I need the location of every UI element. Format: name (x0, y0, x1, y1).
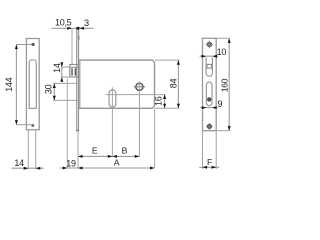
body right corner extension line (154, 108, 156, 168)
latch hatch bar 1 (71, 68, 73, 75)
dim 3 arrow right (80, 27, 85, 30)
dim 14 bottom arrow right (36, 167, 41, 170)
dim 19-A line (60, 167, 155, 169)
strike plate bottom screw hole (31, 124, 34, 127)
faceplate latch opening (upper slot) (206, 58, 212, 77)
faceplate back line (76, 30, 78, 131)
faceplate outline (203, 38, 217, 130)
dim 14 latch arrow down (60, 62, 63, 67)
dim 144 line (15, 45, 17, 125)
svg-text:160: 160 (220, 78, 230, 92)
dim 9 arrow left (202, 106, 207, 109)
dim 19 arrow left (63, 167, 68, 170)
dim 30 ext top (53, 82, 79, 84)
dim 144 arrow up (15, 45, 18, 50)
dim F arrow right (212, 166, 217, 169)
faceplate top screw hole (207, 42, 212, 47)
latch tip extension line (71, 28, 73, 64)
dim 84 ext top (155, 59, 179, 61)
dim F line (199, 166, 219, 168)
dim 84 ext bottom (155, 107, 179, 109)
dim 10 arrow right (212, 55, 217, 58)
dim 9 arrow right (212, 106, 217, 109)
dim B arrow left (112, 155, 117, 158)
svg-text:16: 16 (153, 96, 163, 106)
dim E arrow left (78, 155, 83, 158)
dim 16 ext top from follower (106, 94, 166, 96)
strike plate outline (26, 39, 39, 130)
dim E arrow right (108, 155, 113, 158)
svg-text:B: B (122, 146, 128, 156)
faceplate top edge extension (216, 37, 229, 39)
dim 84 arrow up (177, 60, 180, 65)
svg-text:14: 14 (52, 63, 62, 73)
faceplate ext line right below (215, 131, 217, 169)
svg-text:F: F (207, 157, 212, 167)
lock body left edge (79, 60, 81, 108)
cylinder hole cross vertical and B extension (138, 81, 140, 156)
svg-text:10,5: 10,5 (55, 17, 72, 27)
faceplate ext line left below (202, 131, 204, 169)
svg-text:84: 84 (168, 78, 178, 88)
dim F arrow left (203, 166, 208, 169)
dim 144 leader top (16, 44, 31, 46)
dim 19 arrow right / dim A arrow left (78, 167, 83, 170)
svg-text:E: E (92, 146, 98, 156)
svg-text:30: 30 (43, 84, 53, 94)
dim 14 latch line (61, 62, 63, 82)
dim 30 arrow down (53, 96, 56, 101)
dim 144 arrow down (15, 120, 18, 125)
dim 10,5 arrow left (67, 27, 72, 30)
ext line left slot right (35, 130, 37, 170)
dim 16 arrow down (163, 104, 166, 109)
cylinder screw hole circle (136, 83, 143, 90)
dim E-B line (78, 155, 139, 157)
dim 10 arrow left (202, 55, 207, 58)
dim 10 line (200, 55, 219, 57)
faceplate front extension below (77, 131, 79, 169)
faceplate top hole cross (206, 43, 214, 45)
strike plate slot (29, 60, 36, 109)
dim 30 line (53, 83, 55, 100)
dim 16 arrow up (163, 94, 166, 99)
svg-text:10: 10 (217, 47, 227, 57)
faceplate lower slot (206, 82, 212, 106)
dim 10,5-3 line (51, 27, 93, 29)
faceplate front line (78, 30, 80, 131)
faceplate bottom screw hole (207, 124, 211, 128)
ext line left slot left (27, 130, 29, 170)
dim 160 arrow up (228, 38, 231, 43)
follower hole stadium (109, 90, 116, 107)
latch bevel line (70, 66, 79, 68)
faceplate bottom hole cross (206, 125, 213, 127)
latch visible in opening (206, 63, 212, 65)
svg-text:3: 3 (84, 18, 89, 28)
latch hatch bar 2 (75, 68, 77, 75)
dim 14 bottom line (12, 167, 44, 169)
dim 160 arrow down (228, 126, 231, 131)
dim 30 ext bottom (53, 99, 79, 101)
svg-text:A: A (114, 158, 120, 168)
strike plate top screw hole (31, 43, 34, 46)
dim 84 line (177, 60, 179, 108)
dim B arrow right (135, 155, 140, 158)
cylinder hole cross horizontal (134, 86, 146, 88)
dim 30 arrow up (53, 83, 56, 88)
latch extended tip extension line (66, 79, 68, 169)
svg-text:9: 9 (217, 99, 222, 109)
lock body outline (79, 60, 155, 108)
follower centerline extension (111, 87, 113, 156)
dim A arrow right (150, 167, 155, 170)
dim 144 leader bottom (16, 124, 31, 126)
dim 14 latch ext bottom (61, 76, 70, 78)
dim 9 line (200, 107, 218, 109)
faceplate bottom tick (76, 130, 79, 132)
latch bolt outline (70, 65, 79, 78)
svg-text:144: 144 (4, 77, 14, 91)
svg-text:14: 14 (14, 158, 24, 168)
dim 84 arrow down (177, 104, 180, 109)
screw head in lower slot (207, 97, 211, 101)
dim 14 latch arrow up (60, 77, 63, 82)
dim merged arrows on faceplate (76, 27, 79, 30)
dim 16 line (164, 94, 166, 108)
svg-text:19: 19 (66, 158, 76, 168)
dim 160 line (228, 38, 230, 130)
dim 14 bottom arrow left (24, 167, 29, 170)
dim 14 latch ext top (61, 66, 71, 68)
faceplate bottom edge extension (216, 130, 230, 132)
faceplate weld tick (78, 36, 80, 41)
